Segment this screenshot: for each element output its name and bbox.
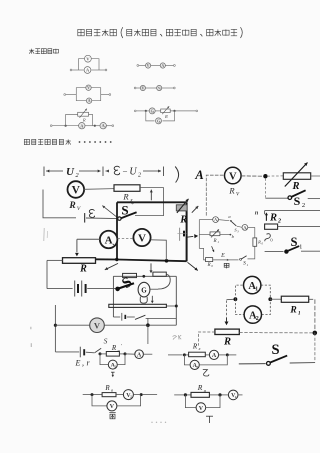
wire A right bbox=[143, 353, 152, 355]
wire hand bottom bbox=[213, 259, 239, 261]
wire V rail bbox=[55, 324, 90, 326]
label yi bbox=[203, 370, 209, 376]
wire Er left vertical bbox=[54, 305, 56, 352]
stray dots bottom bbox=[151, 422, 152, 423]
svg-text:R: R bbox=[197, 383, 203, 392]
svg-text:R: R bbox=[257, 240, 261, 245]
wire A1 branch dashed bbox=[235, 285, 243, 299]
circuit: V A series variant bbox=[137, 63, 175, 68]
circuit: ammeter-external variant bbox=[70, 55, 107, 73]
switch bridge bottom blade bbox=[135, 315, 145, 319]
wire A2 branch right dashed bbox=[262, 299, 271, 314]
svg-text:V: V bbox=[147, 64, 150, 68]
ammeter A yi bbox=[209, 350, 218, 359]
switch S bridge label bbox=[119, 274, 135, 292]
svg-text:R: R bbox=[291, 181, 299, 192]
wire R to right edge bbox=[311, 175, 320, 177]
wire yi loop left bbox=[184, 355, 190, 365]
svg-text:a: a bbox=[111, 387, 113, 392]
annotation arrow into box2 bbox=[150, 263, 152, 270]
ammeter A2 big bbox=[244, 306, 261, 323]
wire battery to switch pivot bbox=[86, 217, 118, 220]
wire box2 right curl to G bbox=[158, 274, 170, 289]
wire S2 right bbox=[308, 198, 320, 200]
switch S bridge blade bbox=[119, 283, 134, 288]
switch S* blade bbox=[121, 212, 137, 218]
stray mark 2k bbox=[173, 336, 177, 340]
variable resistor R1 hand bbox=[210, 232, 220, 236]
variable resistor R gray bbox=[176, 205, 187, 211]
svg-text:R: R bbox=[179, 214, 187, 225]
svg-text:.: . bbox=[112, 239, 114, 247]
label jia below bbox=[224, 263, 229, 268]
svg-text:x: x bbox=[198, 346, 201, 351]
svg-text:V: V bbox=[229, 171, 237, 182]
wire rheostat right long bbox=[239, 332, 314, 334]
wire battery to bridge switch bbox=[87, 288, 115, 290]
svg-text:G: G bbox=[141, 286, 147, 294]
wire R2 right rail bbox=[278, 226, 320, 228]
wire rheostat left bbox=[198, 332, 215, 346]
switch S Er blade bbox=[95, 348, 101, 352]
svg-text:V: V bbox=[138, 232, 146, 244]
wire A1 branch right dashed bbox=[261, 285, 270, 299]
ammeter A1 hand bbox=[213, 217, 219, 223]
wire R2 top rail bbox=[265, 210, 320, 212]
label EMF - U2 bbox=[114, 166, 120, 174]
voltmeter V gray bbox=[90, 318, 105, 333]
ammeter A Er bbox=[135, 350, 144, 359]
annotation paren bbox=[175, 167, 178, 183]
annotation arrow up R2 bbox=[265, 215, 267, 221]
wire node to A bbox=[125, 353, 135, 355]
resistor Rx ding bbox=[191, 392, 209, 397]
contact a bbox=[230, 220, 232, 222]
label EMF script bbox=[89, 210, 94, 218]
svg-text:A: A bbox=[161, 64, 164, 68]
resistor R1 big bbox=[281, 296, 308, 302]
wire S1 left bbox=[265, 250, 284, 252]
wire dashed down to rheostat bbox=[226, 301, 228, 319]
svg-text:R: R bbox=[122, 192, 129, 202]
svg-text:U: U bbox=[129, 167, 137, 178]
svg-text:2: 2 bbox=[138, 173, 141, 179]
stray mark left bbox=[30, 327, 32, 330]
svg-text:R: R bbox=[104, 384, 110, 392]
circuit: galvanometer R series variant bbox=[134, 106, 197, 124]
wire hand right vertical bbox=[248, 246, 255, 259]
svg-text:V: V bbox=[199, 406, 204, 412]
wire circuit II right bold bbox=[186, 202, 188, 261]
wire link down to V rail bbox=[147, 318, 149, 325]
wire to R1 box bbox=[270, 298, 281, 300]
svg-text:V: V bbox=[72, 185, 81, 197]
wire left down to battery row bbox=[46, 260, 48, 288]
wire R1 right b bbox=[220, 233, 230, 235]
svg-text:R: R bbox=[228, 186, 235, 196]
annotation arrow down-right bbox=[188, 262, 198, 270]
resistor R0 hand right bbox=[253, 238, 257, 246]
label ding bbox=[206, 416, 213, 423]
switch S big pivot bbox=[267, 362, 271, 366]
annotation small arrow bbox=[212, 246, 214, 252]
wire yi right bbox=[229, 354, 237, 356]
junction V rail bbox=[146, 323, 150, 327]
svg-text:1: 1 bbox=[299, 244, 302, 251]
wire circuit II bottom bold bbox=[96, 259, 187, 261]
voltmeter V2 ding bbox=[228, 390, 238, 400]
wire circuit II top bold bbox=[117, 201, 187, 203]
wire bridge right bbox=[175, 276, 177, 325]
resistor bridge box2 bbox=[153, 272, 166, 276]
wire R0 up to A2 bbox=[254, 227, 256, 238]
svg-text:V: V bbox=[87, 86, 90, 90]
wire circuit II left bold bbox=[116, 202, 118, 259]
ammeter A2 hand bbox=[242, 225, 248, 231]
junction bbox=[115, 258, 118, 261]
stray faint mark bbox=[43, 228, 45, 241]
voltmeter V ding bbox=[196, 403, 206, 413]
wire hand mid branch bbox=[199, 233, 210, 235]
dimension arrow EMF minus U2 bbox=[106, 167, 164, 177]
section label 电阻测量面面观 ...... bbox=[24, 139, 111, 144]
svg-text:2: 2 bbox=[277, 218, 281, 224]
wire A2 branch dashed bbox=[235, 299, 244, 314]
svg-text:2: 2 bbox=[256, 316, 259, 322]
wire Er bottom bbox=[55, 351, 79, 353]
wire Rx to node ding bbox=[209, 394, 218, 396]
wire bridge top bbox=[113, 275, 176, 277]
wire S1 right bbox=[301, 250, 320, 252]
wire ding right bbox=[238, 394, 243, 396]
junction Ra right bbox=[124, 352, 127, 355]
wire to S2 pivot bbox=[265, 197, 287, 199]
wire A down arrow to R bbox=[76, 239, 78, 252]
switch S1 blade bbox=[288, 246, 299, 251]
wire A2 left to S3 bbox=[237, 226, 242, 227]
junction bing right bbox=[140, 393, 143, 396]
voltmeter V2 bing bbox=[123, 390, 133, 400]
annotation arrow to S* bbox=[102, 206, 117, 218]
galvanometer G bbox=[138, 282, 150, 297]
voltmeter V Rv right bbox=[225, 167, 242, 184]
annotation arrow right bbox=[187, 235, 193, 238]
svg-text:R: R bbox=[111, 344, 117, 352]
annotation up arrow bbox=[150, 190, 152, 201]
wire Ra to node bbox=[119, 353, 125, 355]
voltmeter V bing bbox=[107, 401, 117, 411]
junction Er left bbox=[54, 324, 57, 327]
wire R1 right down bbox=[309, 299, 315, 333]
switch S bridge pivot bbox=[115, 287, 120, 292]
svg-text:2: 2 bbox=[130, 395, 132, 399]
battery E r bbox=[79, 347, 81, 358]
circuit: rheostat shunt variant bbox=[50, 109, 113, 129]
junction A1A2 right bbox=[268, 297, 272, 301]
ammeter A2 yi bbox=[190, 360, 199, 369]
wire A to V dashed bbox=[118, 237, 134, 239]
svg-text:R: R bbox=[164, 114, 168, 119]
wire Rx to A yi bbox=[205, 354, 209, 356]
wire right vertical to S bbox=[314, 333, 316, 362]
svg-text:1: 1 bbox=[247, 263, 249, 267]
svg-text:n: n bbox=[255, 210, 259, 217]
wire junction to R box bbox=[267, 175, 283, 177]
label bing bbox=[109, 413, 115, 419]
wire A2 loop left bbox=[100, 354, 108, 365]
wire A to node yi bbox=[219, 354, 226, 356]
svg-text:a: a bbox=[118, 348, 120, 353]
wire A left bbox=[77, 238, 100, 240]
svg-text:R: R bbox=[68, 201, 75, 211]
wire ding left bbox=[174, 394, 184, 396]
junction Ra left bbox=[99, 352, 102, 355]
hook below G bbox=[140, 297, 147, 304]
wire A corner dotted bbox=[206, 175, 224, 215]
junction ding right bbox=[218, 393, 221, 396]
wire left side circuit I bbox=[68, 189, 84, 191]
circuit: half-deflection V variant bbox=[134, 85, 175, 90]
wire bridge battery row left bbox=[113, 316, 120, 318]
resistor Ra bing bbox=[102, 393, 116, 397]
battery bridge bbox=[121, 313, 123, 321]
circuit: meters parallel variant bbox=[64, 85, 111, 103]
switch S1 hand blade bbox=[242, 256, 247, 259]
switch S2 pivot bbox=[288, 196, 292, 200]
svg-text:V: V bbox=[142, 86, 145, 90]
battery two cells circuit II bbox=[74, 281, 76, 297]
wire S right bbox=[290, 362, 315, 364]
switch S3 hand blade bbox=[231, 221, 236, 226]
svg-text:S: S bbox=[294, 194, 301, 208]
junction ding left bbox=[184, 393, 187, 396]
svg-text:S: S bbox=[271, 342, 279, 358]
junction V right bbox=[263, 174, 267, 178]
svg-text:2: 2 bbox=[246, 228, 247, 230]
wire yi left bbox=[168, 354, 183, 356]
dimension arrow U2 bbox=[44, 167, 103, 177]
wire arrow on bottom bbox=[227, 259, 229, 261]
resistor Rx bbox=[114, 185, 140, 192]
battery on right vertical bbox=[179, 228, 181, 241]
svg-text:R: R bbox=[82, 118, 86, 123]
slide wire resistor bbox=[109, 304, 167, 307]
wire battery to switch bbox=[86, 351, 95, 354]
wire stub to A1A2 bbox=[227, 298, 236, 301]
wire V to junction bbox=[241, 175, 263, 177]
voltmeter V circuit II bbox=[133, 229, 150, 246]
svg-text:S: S bbox=[104, 337, 108, 346]
svg-text:E: E bbox=[75, 359, 81, 368]
junction yi left bbox=[183, 353, 186, 356]
svg-text:A: A bbox=[212, 353, 217, 359]
svg-text:1: 1 bbox=[217, 221, 218, 223]
wire bing loop left bbox=[92, 395, 107, 406]
wire R left bbox=[47, 259, 63, 261]
switch S2 blade bbox=[291, 190, 305, 197]
wire bing left bbox=[83, 394, 91, 396]
wire V to Rx bbox=[84, 188, 114, 191]
resistor R2 box bbox=[265, 224, 278, 229]
switch S big blade bbox=[270, 356, 287, 363]
wire Rx to right side down to switch bbox=[135, 188, 164, 216]
title text 电阻的测量（定值电阻、电表内阻、电源内阻） bbox=[78, 27, 243, 38]
wire node to V2 ding bbox=[222, 394, 229, 396]
junction right rheostat bbox=[313, 331, 318, 336]
contact b bbox=[230, 234, 232, 236]
switch S* pivot bbox=[118, 217, 121, 220]
wire Ra to V2 bing bbox=[116, 394, 123, 396]
annotation arrow below G bbox=[151, 296, 153, 301]
wire S left bbox=[239, 363, 266, 365]
wire to Ra box bbox=[100, 353, 106, 355]
ammeter A2 Er bbox=[108, 360, 117, 369]
svg-text:A: A bbox=[194, 168, 203, 182]
wire V right down bbox=[151, 240, 167, 260]
stray mark left 2 bbox=[30, 343, 32, 347]
handwritten R0 squiggle bbox=[265, 234, 271, 242]
wire A2 right bbox=[248, 226, 255, 228]
wire A2 loop right bbox=[117, 354, 125, 365]
svg-text:R: R bbox=[223, 337, 231, 348]
svg-text:S: S bbox=[121, 203, 128, 218]
variable resistor R right bbox=[283, 173, 310, 180]
wire bing right bbox=[143, 394, 157, 396]
wire hand box left bbox=[198, 220, 200, 249]
ammeter A2 circuit II bbox=[100, 231, 118, 249]
wire bing to Ra bbox=[94, 394, 103, 396]
rheostat R circuit II bbox=[63, 258, 96, 264]
svg-text:U: U bbox=[66, 166, 75, 178]
junction slide right bbox=[175, 305, 178, 308]
ground anchor mark below A2 bbox=[111, 371, 115, 373]
wire bing loop right bbox=[117, 395, 141, 406]
wire ding to Rx bbox=[187, 394, 191, 396]
wire slide to right bbox=[166, 305, 176, 307]
junction bbox=[165, 259, 169, 263]
svg-text:V: V bbox=[110, 403, 115, 410]
annotation arrow up-right bbox=[192, 206, 199, 213]
section label 伏安法变式 bbox=[29, 49, 58, 54]
resistor R0 hand bottom bbox=[206, 258, 213, 262]
svg-text:1: 1 bbox=[255, 287, 258, 293]
wire junction down dashed bbox=[264, 179, 266, 198]
rheostat R big bbox=[215, 329, 239, 334]
svg-text:R: R bbox=[269, 212, 277, 223]
wire hand top bbox=[199, 219, 213, 221]
switch S1 hand pivot bbox=[240, 258, 242, 260]
wire battery row bbox=[47, 288, 73, 290]
wire ding loop left bbox=[185, 395, 196, 408]
wire A1 to contact bbox=[219, 220, 230, 221]
ammeter A1 big bbox=[244, 276, 261, 293]
junction A1A2 left bbox=[234, 297, 238, 301]
junction yi right bbox=[226, 353, 229, 356]
svg-text:2: 2 bbox=[302, 202, 305, 209]
wire G right bbox=[150, 288, 158, 290]
wire bridge left bbox=[112, 276, 114, 317]
svg-text:R: R bbox=[206, 263, 210, 268]
svg-text:R: R bbox=[289, 306, 296, 316]
junction bridge top bbox=[142, 275, 145, 278]
switch S1 pivot bbox=[284, 249, 288, 253]
svg-text:E: E bbox=[220, 253, 225, 259]
wire ding loop right bbox=[206, 395, 220, 408]
wire yi loop right bbox=[199, 355, 227, 365]
resistor bridge box1 bbox=[123, 273, 137, 277]
resistor Ra' box bbox=[106, 352, 119, 357]
svg-text:R: R bbox=[212, 239, 216, 244]
voltmeter V (Rv) circuit I bbox=[68, 181, 85, 198]
svg-text:1: 1 bbox=[298, 311, 301, 317]
wire blade to right bbox=[146, 317, 177, 319]
wire battery to blade bbox=[127, 316, 135, 318]
wire hand box bottom-left step bbox=[199, 248, 205, 260]
battery EMF circuit I bbox=[80, 210, 82, 227]
annotation arrow down-left bbox=[105, 263, 118, 269]
svg-text:R: R bbox=[192, 343, 198, 351]
wire V2 to node bing bbox=[133, 394, 139, 396]
svg-text:A: A bbox=[88, 99, 91, 103]
wire yi to Rx bbox=[186, 354, 189, 356]
svg-text:R: R bbox=[79, 263, 87, 274]
svg-text:V: V bbox=[94, 320, 101, 330]
svg-text:,: , bbox=[82, 359, 84, 368]
resistor Rx yi bbox=[189, 352, 206, 357]
junction bing left bbox=[91, 393, 94, 396]
wire junction down bbox=[147, 325, 149, 344]
